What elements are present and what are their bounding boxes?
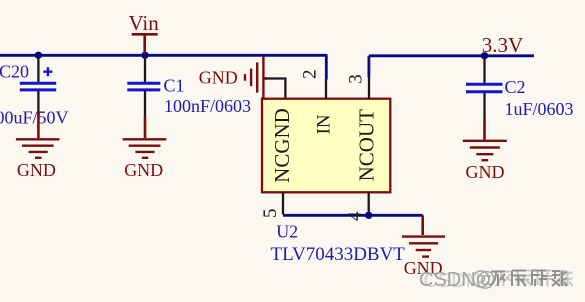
svg-text:2: 2 — [300, 70, 321, 80]
wire pin1 to ground L — [266, 79, 286, 99]
svg-text:U2: U2 — [276, 222, 298, 242]
wire 3.3V output rail — [369, 54, 534, 57]
op-amp U2 regulator body — [262, 99, 390, 193]
svg-text:1uF/0603: 1uF/0603 — [505, 99, 574, 119]
svg-text:100nF/0603: 100nF/0603 — [164, 96, 251, 116]
svg-text:C1: C1 — [164, 75, 185, 95]
watermark CSDN — [419, 269, 573, 292]
svg-text:NCGND: NCGND — [270, 108, 294, 183]
svg-text:4: 4 — [345, 211, 366, 221]
svg-text:C20: C20 — [0, 62, 29, 82]
node junction C20 — [35, 52, 42, 59]
ground under C1 — [123, 117, 167, 158]
watermark at-ring — [473, 271, 489, 287]
ground under C2 — [463, 118, 507, 160]
mock CJK glyph strokes main — [490, 270, 567, 286]
ground under C20 — [16, 112, 60, 158]
svg-text:TLV70433DBVT: TLV70433DBVT — [271, 244, 406, 265]
wire pin3 riser — [367, 56, 370, 78]
svg-text:100uF/50V: 100uF/50V — [0, 108, 69, 128]
mock CJK glyph 1 — [496, 270, 573, 286]
svg-text:NCOUT: NCOUT — [355, 109, 379, 182]
svg-text:GND: GND — [466, 162, 505, 182]
ground at pin4 net — [402, 215, 445, 256]
wire bottom GND net — [283, 214, 423, 217]
capacitor C20 — [20, 57, 56, 113]
capacitor C2 — [466, 57, 503, 118]
wire pin2 drop — [325, 55, 328, 79]
svg-text:C2: C2 — [505, 77, 526, 97]
pin 4 bottom — [368, 192, 370, 214]
node junction pin4 — [365, 212, 372, 219]
svg-text:GND: GND — [199, 68, 238, 88]
svg-text:5: 5 — [260, 208, 281, 218]
svg-text:IN: IN — [314, 114, 335, 134]
pin 3 NCOUT top — [368, 77, 370, 98]
capacitor C1 — [127, 57, 160, 118]
svg-text:GND: GND — [17, 160, 56, 180]
wire main top rail Vin net — [0, 54, 327, 57]
svg-text:3: 3 — [345, 74, 366, 84]
svg-text:GND: GND — [124, 160, 163, 180]
svg-text:3.3V: 3.3V — [482, 33, 523, 57]
pin 2 IN top — [325, 79, 327, 98]
node junction C2 — [481, 52, 488, 59]
pin 5 NCGND bottom — [282, 192, 284, 214]
power port Vin — [132, 34, 158, 54]
node junction Vin/C1 — [141, 52, 148, 59]
svg-text:Vin: Vin — [129, 11, 160, 35]
